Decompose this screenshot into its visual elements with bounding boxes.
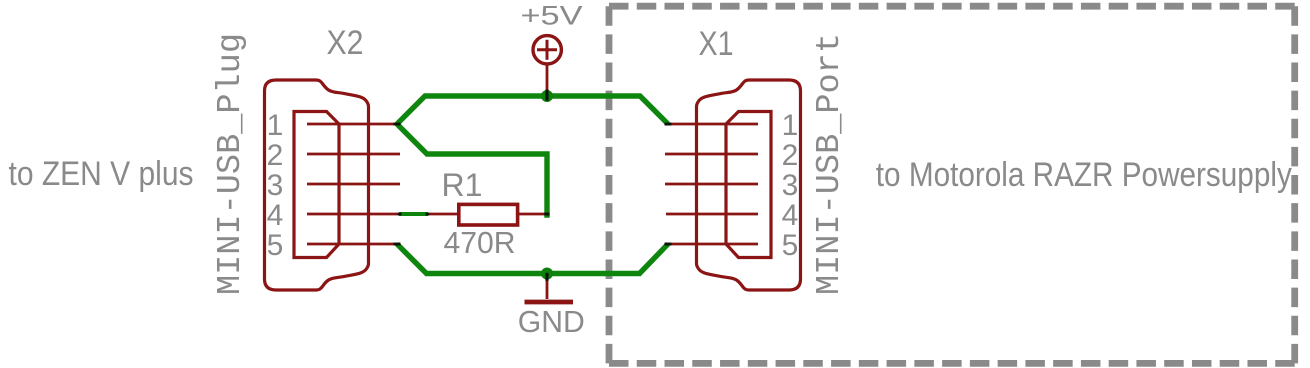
junction node X1 pin1 [665,123,672,126]
X2 pin 1 [307,123,401,126]
svg-text:MINI-USB_Plug: MINI-USB_Plug [212,33,249,295]
junction node X2 pin5 [394,243,401,246]
frame: dashed region border [609,3,1295,10]
svg-text:R1: R1 [442,167,483,203]
junction node R1 left / pin4 [426,213,430,216]
svg-text:2: 2 [267,139,284,172]
ground GND bar [525,300,574,305]
svg-text:MINI-USB_Port: MINI-USB_Port [811,33,848,295]
svg-text:470R: 470R [444,225,516,260]
svg-text:5: 5 [782,229,799,262]
supply +5V lead [546,65,549,91]
svg-text:4: 4 [782,199,799,232]
connector X2 outer outline (MINI-USB plug body) [265,80,369,290]
X2 pin 2 [307,153,400,156]
supply +5V plus sign [537,48,557,51]
X1 pin 2 [665,153,758,156]
svg-text:3: 3 [782,169,799,202]
junction dot at +5V tap [541,90,553,102]
junction dot at GND tap [541,268,553,280]
supply +5V symbol circle [533,36,561,64]
svg-text:X1: X1 [699,25,734,63]
svg-text:2: 2 [782,139,799,172]
X1 pin 5 [665,243,759,246]
wire: net +5V top (X2 pin1 to X1 pin1) [397,96,668,124]
resistor R1 left lead [426,213,459,216]
svg-text:X2: X2 [327,24,364,62]
junction node R1 right [544,213,549,216]
X2 pin 3 [307,183,400,186]
X1 pin 4 [666,213,758,216]
resistor R1 body [459,204,518,225]
X2 pin 4 [307,213,402,216]
connector X2 inner shell [294,112,339,258]
svg-text:to ZEN V plus: to ZEN V plus [9,155,194,193]
wire: net from X2 pin1 down to R1 right lead [397,124,547,218]
X2 pin 5 [307,243,401,246]
resistor R1 right lead [518,213,550,216]
svg-text:1: 1 [267,109,284,142]
svg-text:GND: GND [518,304,585,339]
connector X1 outer outline (MINI-USB port body, mirrored) [665,80,801,290]
X1 pin 1 [665,123,759,126]
svg-text:to Motorola RAZR Powersupply: to Motorola RAZR Powersupply [876,156,1292,194]
svg-text:1: 1 [782,109,799,142]
connector X1 inner shell [726,112,771,258]
svg-text:+5V: +5V [521,1,583,31]
wire: net GND bottom (X2 pin5 to X1 pin5) [397,244,668,274]
wire: short net X2 pin4 to R1 left lead [399,212,428,216]
junction node X2 pin1 [394,123,401,126]
svg-text:5: 5 [267,229,284,262]
svg-text:4: 4 [267,199,284,232]
X1 pin 3 [665,183,758,186]
junction node X1 pin5 [665,243,672,246]
ground GND lead [546,281,549,300]
svg-text:3: 3 [267,169,284,202]
